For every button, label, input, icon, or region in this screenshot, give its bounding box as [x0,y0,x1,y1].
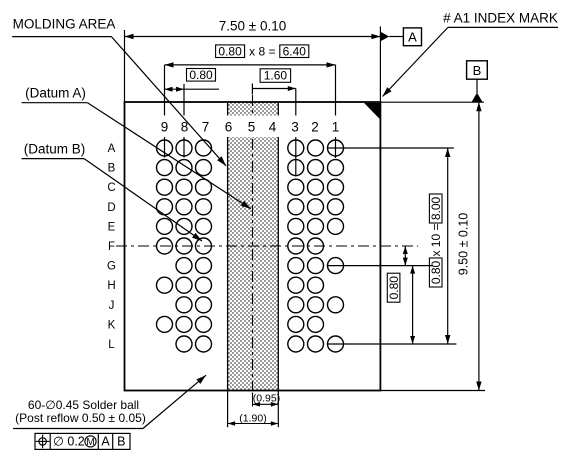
svg-text:0.80: 0.80 [218,44,242,58]
svg-text:H: H [107,280,115,292]
svg-text:0.80: 0.80 [429,260,443,284]
svg-text:2: 2 [311,120,319,135]
svg-text:B: B [473,63,482,78]
(Datum B) label [22,141,202,241]
(Datum A) label [22,86,251,209]
svg-text:(0.95): (0.95) [253,392,280,404]
datum B symbol [467,61,488,102]
left edge extension line [124,30,126,102]
svg-text:8.00: 8.00 [429,196,443,220]
dimension 0.80 (row pitch) [387,246,408,302]
svg-text:C: C [107,182,115,194]
dimension 7.50 ± 0.10 [125,19,381,40]
svg-text:D: D [107,202,115,214]
svg-text:6.40: 6.40 [283,44,307,58]
svg-text:5: 5 [248,120,256,135]
dimension (0.95) [253,392,281,406]
row G extension line [328,265,433,267]
dimension 9.50 ± 0.10 [457,102,482,390]
right edge extension line [379,27,381,103]
strip left extension line [227,391,229,428]
row A extension line [328,147,454,149]
column label band (white gap in strip) [226,116,280,138]
package outline [125,102,381,391]
col 1 extension line [335,65,337,158]
svg-text:L: L [108,339,115,351]
dimension 1.60 (center to col 3) [252,69,295,95]
svg-text:F: F [108,241,115,253]
A1 index mark triangle [364,103,380,119]
svg-text:J: J [109,300,115,312]
svg-text:4: 4 [269,120,277,135]
bottom edge extension line [380,390,485,392]
top edge extension line [380,101,484,103]
svg-text:7: 7 [202,120,210,135]
feature control frame (position ∅0.2 M A B) [35,433,130,449]
svg-text:6: 6 [225,120,233,135]
svg-text:(Post reflow 0.50 ± 0.05): (Post reflow 0.50 ± 0.05) [15,411,146,425]
svg-text:G: G [107,261,116,273]
svg-text:1: 1 [332,120,340,135]
svg-text:9: 9 [161,120,169,135]
svg-text:B: B [108,163,116,175]
# A1 INDEX MARK label [383,10,559,96]
svg-text:B: B [117,435,125,449]
svg-text:9.50 ± 0.10: 9.50 ± 0.10 [457,213,471,276]
vertical centerline (package center) [252,95,254,406]
svg-text:60-∅0.45 Solder ball: 60-∅0.45 Solder ball [28,398,139,412]
svg-text:1.60: 1.60 [264,69,288,83]
col 8 extension line [183,84,185,158]
col 3 extension line [295,89,297,177]
svg-text:(1.90): (1.90) [239,412,266,424]
solder ball note [13,375,206,428]
dimension 0.80 x 8 = 6.40 [165,44,336,67]
horizontal centerline (row F) [116,245,418,247]
dimension G to L [410,266,415,344]
strip right extension line [277,391,279,428]
svg-text:∅ 0.2: ∅ 0.2 [53,435,85,449]
svg-text:MOLDING AREA: MOLDING AREA [13,16,116,31]
dimension (1.90) [228,412,279,426]
svg-text:# A1 INDEX MARK: # A1 INDEX MARK [443,10,558,25]
svg-text:(Datum B): (Datum B) [24,141,86,156]
row L extension line [328,343,456,345]
molding area strip (hatched) [228,102,279,391]
svg-text:M: M [86,437,94,448]
dimension 0.80 (column pitch) [165,68,220,92]
svg-text:E: E [108,221,116,233]
col 9 extension line [164,65,166,158]
svg-text:A: A [101,435,110,449]
solder balls (60x) [157,140,344,352]
column numbers 9-1 [161,120,340,135]
MOLDING AREA label [12,16,226,166]
svg-text:x 8 =: x 8 = [249,44,275,58]
svg-text:x 10 =: x 10 = [429,223,443,256]
svg-text:(Datum A): (Datum A) [25,86,86,101]
svg-text:A: A [108,143,116,155]
svg-text:K: K [108,319,116,331]
svg-text:0.80: 0.80 [189,68,213,82]
svg-text:A: A [408,30,417,45]
datum A symbol [380,28,421,46]
dimension 0.80 x 10 = 8.00 [429,148,450,344]
svg-text:3: 3 [291,120,299,135]
svg-text:7.50 ± 0.10: 7.50 ± 0.10 [219,19,286,34]
svg-text:0.80: 0.80 [387,276,401,300]
row letters A-L [107,143,116,351]
